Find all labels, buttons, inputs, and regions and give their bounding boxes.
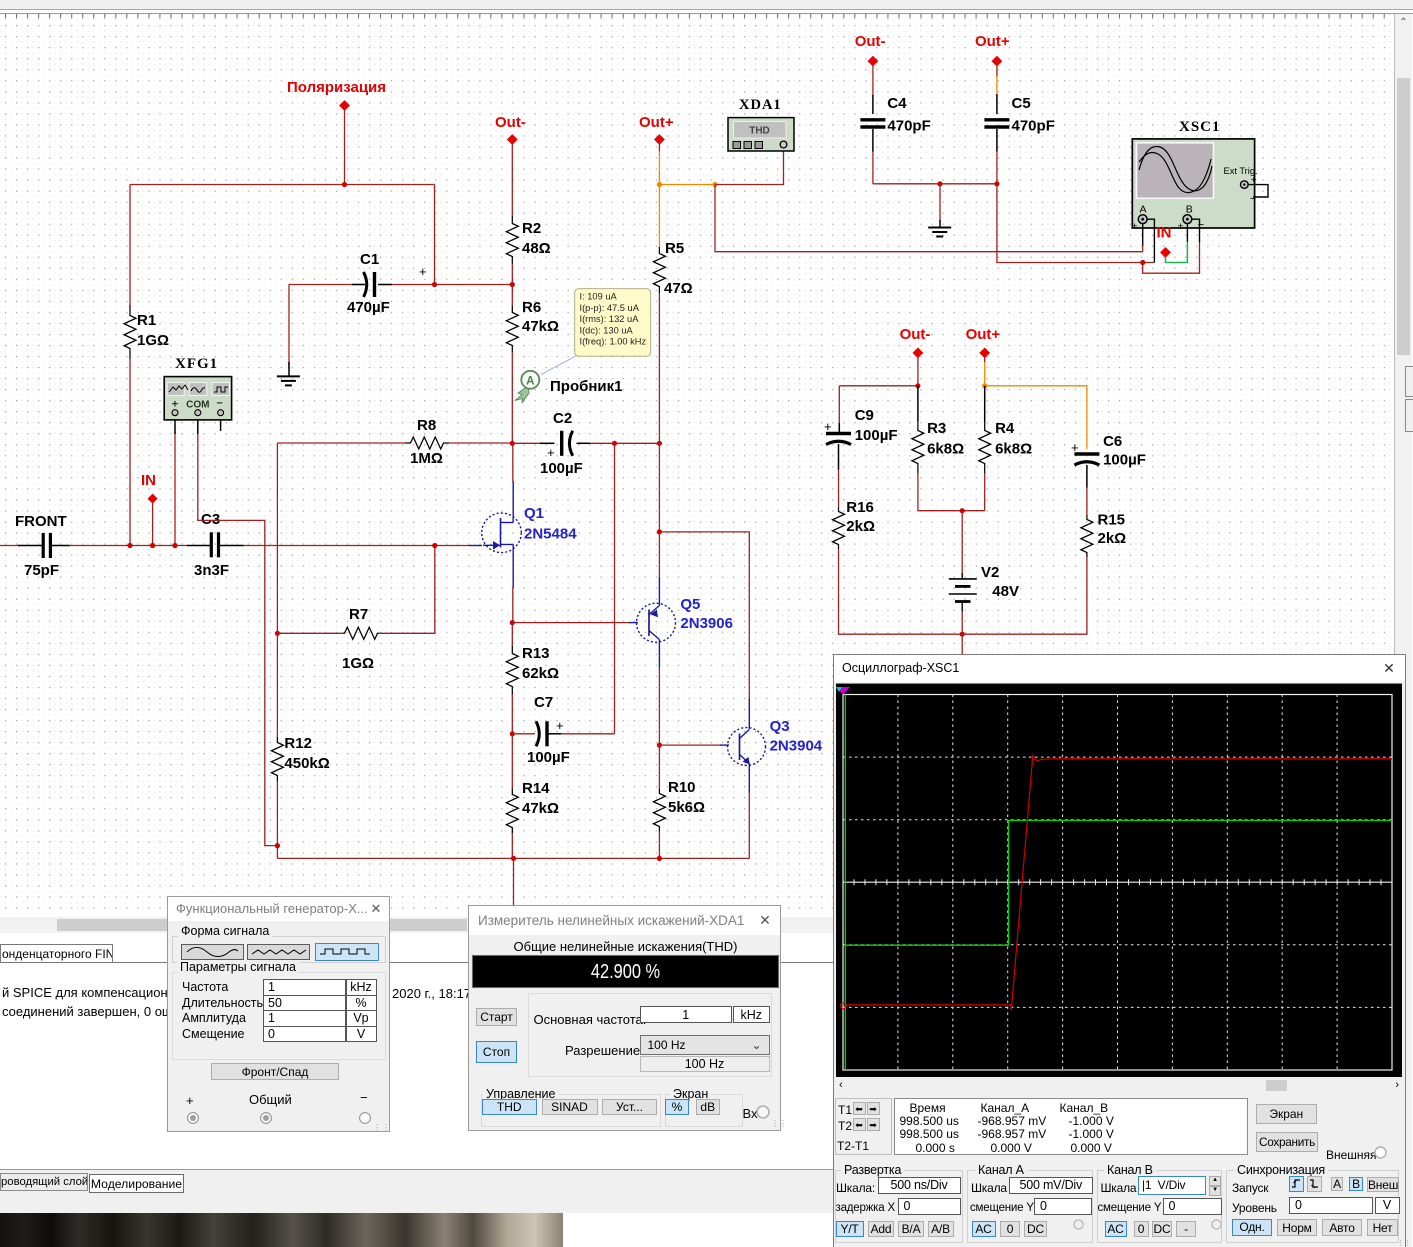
svg-text:100µF: 100µF	[1103, 452, 1146, 469]
svg-text:+: +	[824, 419, 832, 434]
svg-text:Out+: Out+	[966, 326, 1001, 343]
wire IN stub	[152, 503, 154, 546]
svg-text:2N3906: 2N3906	[680, 615, 733, 632]
wire R15 down to rail	[962, 557, 1087, 634]
svg-text:Out-: Out-	[495, 114, 526, 131]
svg-text:1MΩ: 1MΩ	[410, 450, 443, 467]
wire R2-R6	[511, 264, 513, 306]
node Out+ flag (R5)	[639, 114, 674, 145]
resistor R12 450kΩ	[271, 735, 329, 781]
THD meter XDA1	[728, 97, 794, 151]
wire bus stub down	[513, 858, 515, 906]
probe tooltip	[541, 289, 651, 375]
wire R16 down to rail	[839, 549, 963, 634]
wire Q5 base row	[512, 622, 630, 624]
svg-text:XFG1: XFG1	[175, 356, 218, 372]
svg-text:−: −	[1250, 193, 1256, 205]
wire Q1 gate lead	[469, 545, 482, 547]
wire Поляризация stub	[344, 110, 346, 185]
svg-text:2N3904: 2N3904	[770, 738, 823, 755]
wire XDA1 terminal drop	[715, 148, 784, 185]
wire C4-C5 rail	[873, 183, 997, 185]
wire left bus B	[276, 443, 278, 737]
junction C2 row left	[510, 441, 515, 446]
wire C5 top	[996, 66, 998, 77]
wire R13 leads	[511, 623, 513, 646]
wire C9 to R16	[838, 444, 840, 470]
svg-text:2kΩ: 2kΩ	[846, 518, 875, 535]
wire input middle	[51, 545, 70, 547]
svg-text:Out+: Out+	[975, 33, 1010, 50]
svg-text:Q5: Q5	[680, 596, 700, 613]
wire C6 to R15	[1086, 465, 1088, 488]
resistor R8 1MΩ	[405, 417, 449, 467]
wire R4 top lead	[984, 386, 986, 421]
capacitor C3 3n3F	[194, 511, 229, 579]
junction R7	[275, 631, 280, 636]
svg-text:C7: C7	[534, 694, 553, 711]
wire R1 branch	[129, 185, 131, 306]
svg-text:+: +	[1071, 440, 1079, 455]
svg-text:C1: C1	[360, 251, 379, 268]
svg-text:IN: IN	[1157, 225, 1172, 242]
svg-text:450kΩ: 450kΩ	[284, 755, 329, 772]
svg-text:A: A	[526, 375, 534, 387]
wire Out+ stub	[658, 144, 660, 152]
svg-text:62kΩ: 62kΩ	[522, 665, 559, 682]
junction R1	[127, 543, 132, 548]
junction C7 row	[510, 731, 515, 736]
wire R14 leads	[511, 734, 513, 789]
wire bottom bus	[277, 857, 749, 859]
svg-text:+: +	[172, 399, 178, 411]
capacitor FRONT 75pF	[15, 513, 67, 579]
wire Q1 drain	[512, 481, 514, 513]
resistor R15 2kΩ	[1081, 512, 1126, 558]
junction Q3 base row	[657, 743, 662, 748]
wire input right	[220, 545, 244, 547]
junction R4 orange	[982, 383, 987, 388]
junction bus R14	[511, 856, 516, 861]
ground	[277, 376, 300, 385]
svg-text:100µF: 100µF	[855, 427, 898, 444]
wire R4 bottom lead	[984, 473, 986, 511]
wire green IN to B	[1166, 242, 1188, 263]
resistor R1 1GΩ	[124, 305, 169, 359]
svg-text:470pF: 470pF	[887, 118, 930, 135]
svg-text:I(p-p): 47.5 uA: I(p-p): 47.5 uA	[580, 303, 640, 313]
wire C5 bottom	[996, 129, 998, 152]
svg-text:R1: R1	[137, 312, 156, 329]
node Out- flag (R3)	[900, 326, 931, 358]
wire Q5 collector down	[658, 640, 660, 669]
svg-text:6k8Ω: 6k8Ω	[995, 441, 1032, 458]
svg-text:R15: R15	[1098, 512, 1126, 529]
wire orange to XDA1	[659, 184, 715, 186]
svg-text:I(dc): 130 uA: I(dc): 130 uA	[580, 325, 634, 335]
svg-text:470pF: 470pF	[1012, 118, 1055, 135]
wire C7 row	[512, 733, 535, 735]
svg-text:2kΩ: 2kΩ	[1098, 530, 1127, 547]
svg-text:+: +	[1132, 221, 1138, 233]
svg-text:48Ω: 48Ω	[522, 240, 551, 257]
svg-text:Out+: Out+	[639, 114, 674, 131]
node Out+ flag (R4)	[966, 326, 1001, 358]
transistor Q1 2N5484	[482, 505, 578, 553]
svg-text:FRONT: FRONT	[15, 513, 67, 530]
junction ground	[937, 181, 942, 186]
wire R3 leads	[917, 386, 919, 421]
capacitor C4 470pF	[860, 95, 930, 135]
junction input/R7	[432, 543, 437, 548]
junction	[432, 282, 437, 287]
capacitor C6 100µF	[1071, 433, 1146, 469]
svg-text:R14: R14	[522, 780, 550, 797]
node Поляризация flag	[287, 79, 386, 111]
node IN flag (scope)	[1157, 225, 1172, 258]
junction R13 top	[510, 620, 515, 625]
wire Q5 emitter up	[658, 577, 660, 606]
wire Q1 source	[512, 553, 514, 588]
junction Out+ spine	[657, 441, 662, 446]
svg-text:R8: R8	[417, 417, 436, 434]
wire R5 bottom	[658, 293, 660, 443]
junction Out+ orange	[657, 182, 662, 187]
svg-text:V2: V2	[981, 564, 999, 581]
svg-text:C3: C3	[201, 511, 220, 528]
svg-text:100µF: 100µF	[540, 460, 583, 477]
ground	[928, 228, 951, 237]
wire Ext Trig hook	[1249, 185, 1269, 197]
svg-text:I(rms): 132 uA: I(rms): 132 uA	[580, 314, 640, 324]
svg-text:THD: THD	[749, 126, 770, 137]
junction R3	[915, 383, 920, 388]
wire C4 bottom	[872, 129, 874, 152]
svg-text:I: 109 uA: I: 109 uA	[580, 292, 618, 302]
svg-text:XDA1: XDA1	[739, 97, 782, 113]
wire V2 ground drop	[961, 634, 963, 658]
node Out+ flag (C5)	[975, 33, 1010, 67]
node IN flag	[141, 472, 158, 504]
node Out- flag (R2)	[495, 114, 526, 145]
junction bus A join	[275, 843, 280, 848]
wire scope A minus hook	[1147, 219, 1154, 262]
wire scope B minus loop	[1143, 242, 1200, 273]
svg-text:R5: R5	[665, 240, 684, 257]
junction C5	[994, 181, 999, 186]
wire input left	[0, 545, 20, 547]
svg-text:R16: R16	[846, 499, 874, 516]
wire Q3 loop top	[659, 532, 749, 700]
oscilloscope XSC1	[1132, 119, 1258, 233]
capacitor C7 100µF	[527, 694, 570, 766]
svg-text:−: −	[1198, 220, 1205, 232]
voltage source V2 48V	[949, 564, 1019, 602]
svg-text:A: A	[1140, 204, 1147, 216]
svg-text:3n3F: 3n3F	[194, 562, 229, 579]
transistor Q5 2N3906	[637, 596, 733, 642]
resistor R3 6k8Ω	[912, 420, 964, 474]
wire C2 left	[512, 442, 546, 444]
svg-text:COM: COM	[186, 400, 209, 411]
svg-text:R2: R2	[522, 220, 541, 237]
svg-text:C4: C4	[887, 95, 907, 112]
svg-text:2N5484: 2N5484	[524, 526, 577, 543]
svg-text:100µF: 100µF	[527, 749, 570, 766]
wire Out- stub	[917, 357, 919, 386]
wire C1 right riser	[434, 185, 436, 285]
svg-text:1GΩ: 1GΩ	[137, 332, 169, 349]
wire scope B plus lead	[1186, 224, 1188, 242]
wire top horizontal rail	[130, 184, 435, 186]
resistor R5 47Ω	[653, 240, 692, 297]
probe Пробник1	[515, 371, 623, 403]
wire orange C6 rail	[985, 386, 1087, 449]
function generator XFG1	[164, 356, 231, 420]
svg-text:Q1: Q1	[524, 505, 544, 522]
svg-text:47Ω: 47Ω	[664, 280, 693, 297]
junction bus R10	[657, 856, 662, 861]
svg-text:I(freq): 1.00 kHz: I(freq): 1.00 kHz	[580, 337, 647, 347]
resistor R16 2kΩ	[833, 499, 876, 549]
wire R10 leads	[658, 745, 660, 789]
wire C9 rail	[839, 385, 918, 387]
wire R7 left	[277, 632, 343, 634]
svg-text:C2: C2	[553, 410, 572, 427]
svg-text:R10: R10	[668, 779, 696, 796]
svg-text:48V: 48V	[992, 583, 1019, 600]
wire R7 right riser	[379, 546, 435, 634]
svg-text:+: +	[419, 264, 427, 279]
svg-text:R6: R6	[522, 299, 541, 316]
resistor R13 62kΩ	[506, 645, 559, 695]
svg-text:R3: R3	[927, 420, 946, 437]
svg-text:C6: C6	[1103, 433, 1122, 450]
svg-text:Out-: Out-	[855, 33, 886, 50]
junction V2 bottom	[960, 632, 965, 637]
capacitor C2 100µF	[540, 410, 583, 477]
wire Out+ stub	[984, 357, 986, 363]
svg-text:75pF: 75pF	[24, 562, 59, 579]
resistor R6 47kΩ	[506, 299, 559, 352]
wire C1 ground drop	[288, 285, 290, 370]
wire C1 row	[289, 284, 363, 286]
svg-text:Пробник1: Пробник1	[550, 378, 623, 395]
svg-text:Поляризация: Поляризация	[287, 79, 386, 96]
wire Q3 base row	[659, 744, 721, 746]
wire R6 to C2 row	[511, 352, 513, 443]
svg-text:5k6Ω: 5k6Ω	[668, 799, 705, 816]
wire scope B minus hook	[1192, 219, 1200, 242]
wire XFG1 COM to C3-net	[198, 432, 278, 846]
svg-text:C9: C9	[855, 407, 874, 424]
wire scope B feed	[997, 184, 1155, 263]
junction V2 top	[960, 508, 965, 513]
resistor R2 48Ω	[506, 216, 550, 264]
junction orange XDA1	[712, 182, 717, 187]
transistor Q3 2N3904	[728, 718, 823, 766]
junction	[342, 182, 347, 187]
wire ground stub	[939, 184, 941, 221]
junction C1 row	[510, 282, 515, 287]
svg-text:R4: R4	[995, 420, 1015, 437]
resistor R10 5k6Ω	[653, 779, 705, 832]
wire C9 drop	[838, 386, 840, 424]
wire V2 leads	[961, 511, 963, 574]
wire scope A feed	[715, 185, 1143, 252]
capacitor C1 470µF	[347, 251, 427, 316]
svg-text:Out-: Out-	[900, 326, 931, 343]
resistor R7 1GΩ	[342, 606, 379, 672]
wire R8 right	[449, 442, 512, 444]
resistor R4 6k8Ω	[979, 420, 1032, 474]
svg-text:6k8Ω: 6k8Ω	[927, 441, 964, 458]
svg-text:−: −	[216, 398, 222, 410]
svg-text:470µF: 470µF	[347, 299, 390, 316]
wire R8 left	[277, 442, 405, 444]
wire scope A plus lead	[1142, 224, 1144, 246]
svg-text:C5: C5	[1012, 95, 1031, 112]
svg-text:Q3: Q3	[770, 718, 790, 735]
svg-text:+: +	[556, 718, 564, 733]
svg-text:+: +	[1178, 221, 1184, 233]
capacitor C9 100µF	[824, 407, 898, 445]
wire Out- to R2	[511, 144, 513, 216]
resistor R14 47kΩ	[506, 780, 559, 834]
svg-text:XSC1: XSC1	[1179, 119, 1221, 135]
svg-text:1GΩ: 1GΩ	[342, 655, 374, 672]
svg-text:47kΩ: 47kΩ	[522, 800, 559, 817]
junction Q3 loop	[657, 529, 662, 534]
wire XFG1 minus stub	[220, 420, 222, 431]
wire C2 right	[577, 442, 659, 444]
svg-text:IN: IN	[141, 472, 156, 489]
wire C4 top	[872, 66, 874, 96]
svg-text:47kΩ: 47kΩ	[522, 318, 559, 335]
node Out- flag (C4)	[855, 33, 886, 67]
wire XFG1 plus lead	[174, 432, 176, 546]
svg-text:R13: R13	[522, 645, 550, 662]
junction scope B branch	[1140, 260, 1145, 265]
capacitor C5 470pF	[984, 95, 1054, 135]
svg-text:R7: R7	[349, 606, 368, 623]
svg-text:R12: R12	[284, 735, 312, 752]
svg-text:+: +	[547, 445, 555, 460]
svg-text:B: B	[1186, 204, 1193, 216]
junction C7 riser	[612, 441, 617, 446]
wire C7 riser	[614, 443, 616, 734]
wire Q3 emitter	[748, 764, 750, 794]
